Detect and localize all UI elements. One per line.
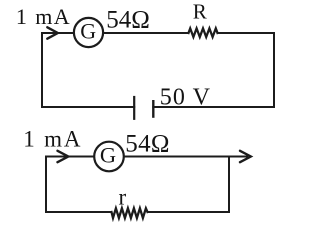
wire: circuit 2 right vertical [228,157,230,213]
wire: circuit 1 top, middle segment (circle to resistor R) [103,32,189,34]
wire: circuit 2 bottom, left segment [46,211,112,213]
svg-text:54Ω: 54Ω [106,7,150,34]
svg-text:1 mA: 1 mA [16,4,71,29]
galvanometer G2 letter [100,142,116,167]
svg-text:50 V: 50 V [160,85,211,111]
resistor r [112,208,148,218]
galvanometer G2 circle [94,142,124,172]
resistor R [189,28,218,37]
svg-text:54Ω: 54Ω [125,130,169,157]
wire: circuit 2 top, right segment [124,156,247,158]
svg-text:G: G [100,142,116,167]
svg-text:R: R [193,0,207,24]
label R [193,0,207,24]
battery plate short (negative) [152,101,154,116]
wire: circuit 1 right vertical [273,33,275,107]
label 1 mA (circuit 2) [23,127,82,152]
svg-text:1 mA: 1 mA [23,127,82,152]
wire: circuit 2 top, left segment [46,156,94,158]
wire: circuit 1 bottom, right segment [153,106,274,108]
wire: circuit 2 bottom, right segment [148,211,230,213]
wire: circuit 1 top, right segment [218,32,275,34]
label 54ohm (circuit 2) [125,130,169,157]
label 54ohm (circuit 1) [106,7,150,34]
wire: circuit 1 top, left segment [42,32,74,34]
galvanometer G1 circle [74,18,103,47]
current arrow circuit 2 (chevron) [58,151,69,162]
svg-text:r: r [119,184,127,209]
label r [119,184,127,209]
open terminal arrow circuit 2 (chevron) [240,151,251,162]
label 1 mA (circuit 1) [16,4,71,29]
svg-text:G: G [80,19,96,44]
battery plate long (positive) [133,97,135,119]
label 50 V [160,85,211,111]
current arrow circuit 1 (chevron) [47,27,58,38]
wire: circuit 2 left vertical [45,157,47,213]
galvanometer G1 letter [80,19,96,44]
wire: circuit 1 left vertical [41,33,43,107]
wire: circuit 1 bottom, left segment [42,106,134,108]
